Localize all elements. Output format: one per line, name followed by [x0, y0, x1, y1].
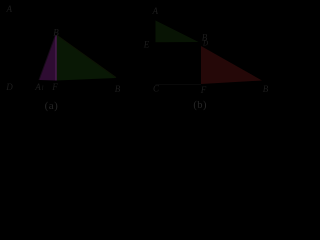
svg-text:C: C — [153, 84, 160, 94]
svg-text:A: A — [151, 6, 158, 16]
svg-text:D: D — [202, 40, 208, 48]
svg-text:F: F — [200, 85, 207, 95]
svg-text:A: A — [34, 82, 41, 92]
green triangle a fill — [57, 35, 117, 81]
triangle a left edge — [39, 35, 56, 80]
svg-text:D: D — [5, 82, 13, 92]
triangle a hypotenuse — [57, 35, 117, 78]
svg-text:l: l — [42, 85, 44, 92]
magenta triangle fill — [39, 35, 56, 81]
red triangle b fill — [201, 46, 262, 84]
green triangle b fill — [156, 21, 199, 43]
svg-text:(b): (b) — [193, 100, 207, 111]
svg-text:F: F — [51, 82, 58, 92]
wire baseline b — [156, 84, 202, 86]
svg-text:A: A — [5, 4, 12, 14]
svg-text:B: B — [263, 84, 269, 94]
altitude divider line — [55, 36, 57, 81]
svg-text:B: B — [53, 28, 59, 38]
svg-text:B: B — [115, 84, 121, 94]
svg-text:E: E — [143, 40, 150, 50]
svg-text:(a): (a) — [45, 100, 59, 112]
